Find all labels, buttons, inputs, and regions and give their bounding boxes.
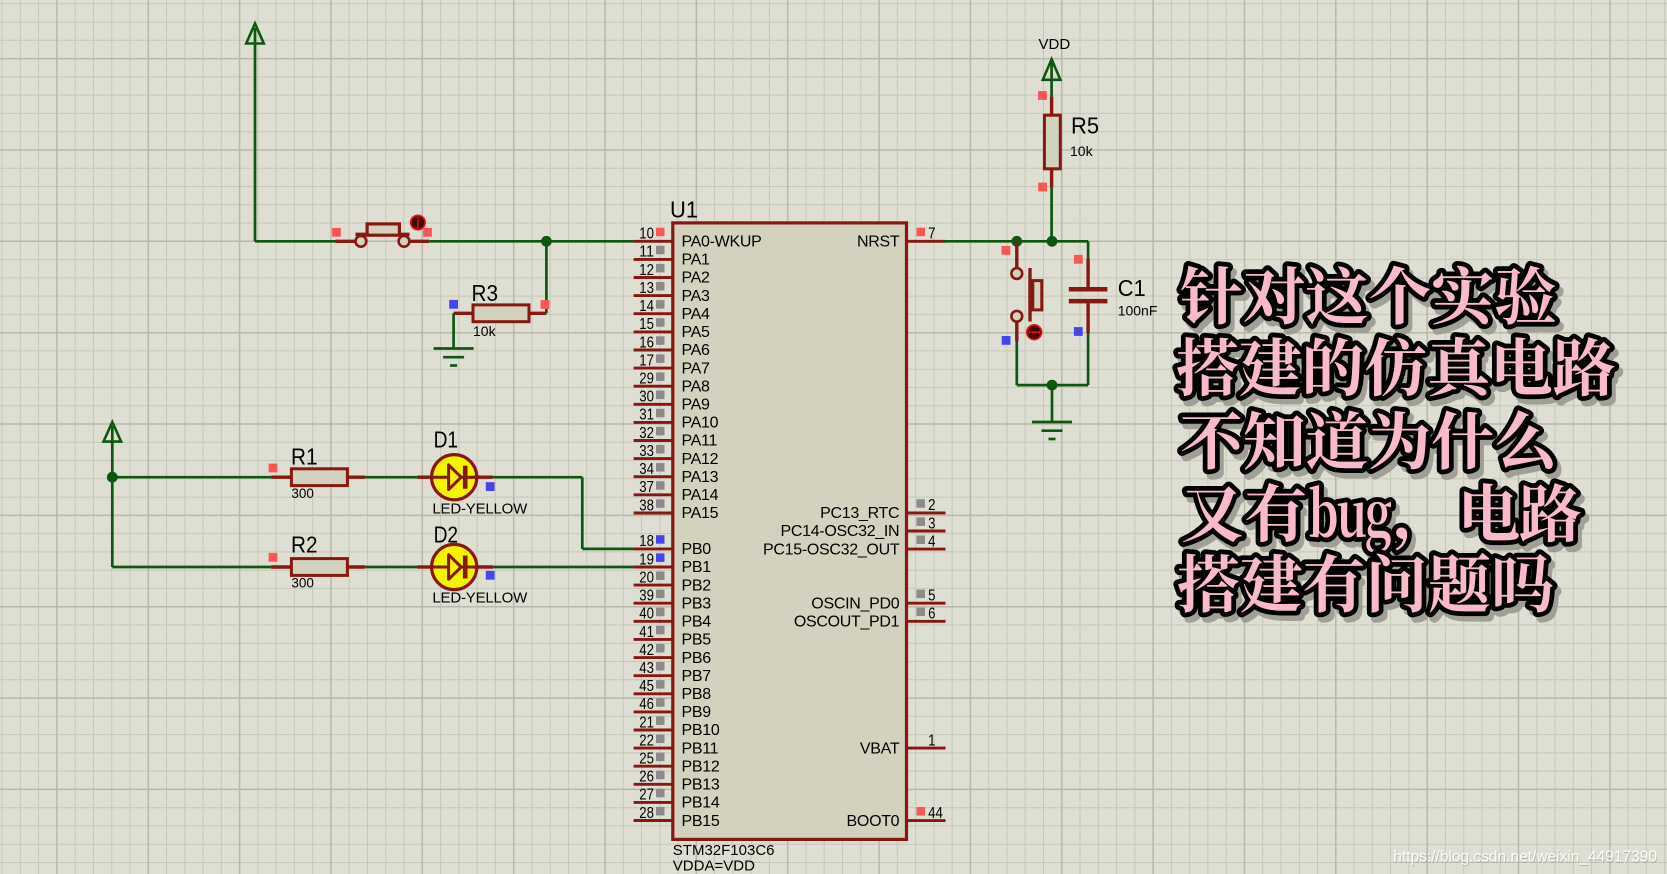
- svg-text:25: 25: [639, 751, 654, 768]
- svg-text:PB6: PB6: [682, 650, 712, 667]
- svg-text:PC13_RTC: PC13_RTC: [820, 505, 899, 522]
- svg-text:41: 41: [639, 624, 654, 641]
- svg-text:30: 30: [639, 389, 654, 406]
- svg-text:5: 5: [928, 588, 935, 605]
- svg-text:PA1: PA1: [682, 252, 711, 269]
- svg-text:OSCOUT_PD1: OSCOUT_PD1: [794, 614, 900, 631]
- svg-text:PB12: PB12: [682, 758, 720, 775]
- svg-text:PA7: PA7: [682, 360, 711, 377]
- svg-text:VDDA=VDD: VDDA=VDD: [673, 858, 755, 874]
- svg-text:19: 19: [639, 551, 654, 568]
- svg-text:14: 14: [639, 298, 654, 315]
- svg-text:D1: D1: [434, 427, 459, 453]
- svg-text:18: 18: [639, 533, 654, 550]
- svg-text:16: 16: [639, 334, 654, 351]
- svg-text:PA12: PA12: [682, 451, 719, 468]
- svg-text:PC15-OSC32_OUT: PC15-OSC32_OUT: [763, 541, 900, 558]
- svg-text:300: 300: [291, 486, 314, 501]
- svg-text:PA11: PA11: [682, 433, 718, 450]
- svg-text:PA15: PA15: [682, 505, 719, 522]
- svg-text:38: 38: [639, 497, 654, 514]
- svg-text:PB1: PB1: [682, 559, 712, 576]
- svg-text:NRST: NRST: [857, 234, 900, 251]
- svg-text:PB9: PB9: [682, 704, 712, 721]
- svg-text:15: 15: [639, 316, 654, 333]
- svg-text:22: 22: [639, 732, 654, 749]
- svg-text:27: 27: [639, 787, 654, 804]
- svg-text:PB15: PB15: [682, 813, 720, 830]
- svg-text:U1: U1: [670, 197, 698, 223]
- svg-text:32: 32: [639, 425, 654, 442]
- svg-text:PB14: PB14: [682, 795, 720, 812]
- svg-text:PB5: PB5: [682, 632, 712, 649]
- svg-text:VDD: VDD: [1039, 36, 1071, 53]
- svg-text:PA10: PA10: [682, 415, 719, 432]
- svg-text:40: 40: [639, 606, 654, 623]
- svg-text:PB2: PB2: [682, 577, 712, 594]
- svg-text:PA2: PA2: [682, 270, 711, 287]
- svg-text:PB13: PB13: [682, 777, 720, 794]
- svg-text:OSCIN_PD0: OSCIN_PD0: [811, 595, 899, 612]
- svg-text:10k: 10k: [1070, 143, 1094, 159]
- svg-text:21: 21: [639, 714, 654, 731]
- svg-text:20: 20: [639, 569, 654, 586]
- svg-text:44: 44: [928, 805, 943, 822]
- svg-text:29: 29: [639, 370, 654, 387]
- svg-text:6: 6: [928, 606, 935, 623]
- svg-text:PA4: PA4: [682, 306, 711, 323]
- svg-text:R3: R3: [472, 280, 499, 306]
- svg-text:PA9: PA9: [682, 396, 711, 413]
- svg-text:PA5: PA5: [682, 324, 711, 341]
- svg-text:PB8: PB8: [682, 686, 712, 703]
- svg-text:D2: D2: [434, 522, 459, 548]
- svg-text:3: 3: [928, 515, 935, 532]
- svg-text:42: 42: [639, 642, 654, 659]
- svg-text:1: 1: [928, 732, 935, 749]
- svg-text:PA0-WKUP: PA0-WKUP: [682, 234, 762, 251]
- svg-text:PC14-OSC32_IN: PC14-OSC32_IN: [780, 523, 899, 540]
- svg-text:43: 43: [639, 660, 654, 677]
- svg-text:PB4: PB4: [682, 614, 712, 631]
- svg-text:R5: R5: [1071, 113, 1099, 139]
- svg-text:PB0: PB0: [682, 541, 712, 558]
- svg-text:100nF: 100nF: [1118, 303, 1158, 319]
- svg-text:PB3: PB3: [682, 595, 712, 612]
- svg-text:LED-YELLOW: LED-YELLOW: [432, 501, 528, 518]
- svg-text:PB7: PB7: [682, 668, 712, 685]
- svg-text:PB11: PB11: [682, 740, 719, 757]
- svg-text:PA8: PA8: [682, 378, 711, 395]
- svg-text:300: 300: [291, 576, 314, 591]
- svg-text:10: 10: [639, 226, 654, 243]
- svg-text:33: 33: [639, 443, 654, 460]
- svg-text:4: 4: [928, 533, 935, 550]
- svg-text:11: 11: [639, 244, 654, 261]
- svg-text:BOOT0: BOOT0: [847, 813, 900, 830]
- svg-text:13: 13: [639, 280, 654, 297]
- svg-text:17: 17: [639, 352, 654, 369]
- svg-text:37: 37: [639, 479, 654, 496]
- svg-text:31: 31: [639, 407, 654, 424]
- svg-text:STM32F103C6: STM32F103C6: [673, 842, 775, 859]
- svg-text:https://blog.csdn.net/weixin_4: https://blog.csdn.net/weixin_44917390: [1393, 848, 1657, 865]
- svg-text:VBAT: VBAT: [860, 740, 900, 757]
- svg-text:LED-YELLOW: LED-YELLOW: [432, 590, 528, 607]
- svg-text:46: 46: [639, 696, 654, 713]
- svg-text:28: 28: [639, 805, 654, 822]
- svg-text:PA13: PA13: [682, 469, 719, 486]
- svg-text:39: 39: [639, 588, 654, 605]
- svg-text:10k: 10k: [473, 323, 497, 339]
- svg-text:2: 2: [928, 497, 935, 514]
- svg-text:26: 26: [639, 769, 654, 786]
- svg-text:R2: R2: [291, 532, 318, 558]
- svg-text:PB10: PB10: [682, 722, 720, 739]
- svg-text:7: 7: [928, 226, 935, 243]
- svg-text:12: 12: [639, 262, 654, 279]
- svg-text:PA6: PA6: [682, 342, 711, 359]
- svg-text:R1: R1: [291, 444, 318, 470]
- svg-text:PA14: PA14: [682, 487, 719, 504]
- svg-text:C1: C1: [1118, 275, 1146, 301]
- svg-text:45: 45: [639, 678, 654, 695]
- svg-text:PA3: PA3: [682, 288, 711, 305]
- svg-text:34: 34: [639, 461, 654, 478]
